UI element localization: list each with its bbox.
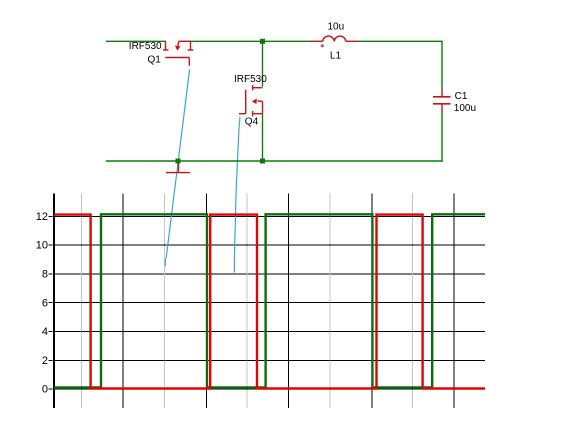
wire top left [107,40,166,42]
wire right vertical lower [441,112,443,161]
horizontal gridlines [55,216,485,389]
wire top mid [191,40,312,42]
svg-text:100u: 100u [454,103,476,114]
annotation pointer to Q1 [165,70,189,267]
wire mid vertical lower [262,115,264,162]
ground [166,164,190,173]
svg-text:IRF530: IRF530 [234,74,267,85]
inductor L1 [311,36,359,47]
transistor Q1 [163,41,193,65]
svg-text:C1: C1 [455,91,468,102]
svg-text:L1: L1 [330,51,342,62]
y axis ticks [49,216,53,389]
svg-text:8: 8 [42,269,48,281]
svg-text:Q4: Q4 [245,116,259,127]
node junction bottom left [176,159,181,164]
annotation pointer to Q4 [234,117,240,273]
wire top right [359,40,443,42]
transistor Q1 arrowhead [175,46,181,51]
red trace (gate waveform red) [54,215,485,389]
capacitor C1 [433,90,451,112]
wire right vertical upper [441,41,443,89]
transistor Q4 arrowhead [252,99,257,105]
vertical solid gridlines [123,194,454,409]
y axis [53,194,55,409]
svg-text:10u: 10u [328,22,345,33]
transistor Q4 [239,85,263,116]
svg-text:Q1: Q1 [148,54,162,65]
wire mid vertical upper [262,41,264,86]
node junction top [260,39,265,44]
vertical dotted gridlines [82,194,413,409]
green trace (gate waveform green) [54,214,485,387]
wire bottom [107,160,443,162]
svg-text:2: 2 [42,355,48,367]
svg-text:10: 10 [36,240,48,252]
node junction bottom mid [260,159,265,164]
axis tick labels [36,211,48,396]
svg-text:6: 6 [42,297,48,309]
svg-text:4: 4 [42,326,48,338]
svg-text:IRF530: IRF530 [129,41,162,52]
svg-text:0: 0 [42,384,48,396]
svg-text:12: 12 [36,211,48,223]
